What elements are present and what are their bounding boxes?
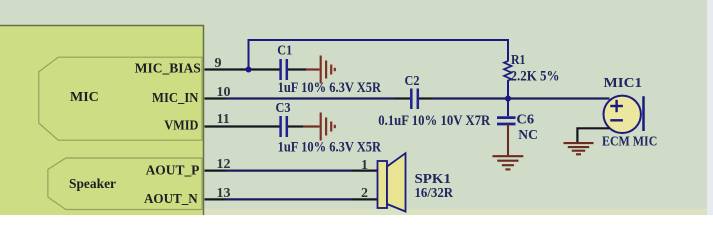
- svg-text:R1: R1: [511, 53, 526, 68]
- ground at MIC1: [564, 143, 594, 154]
- svg-text:2: 2: [361, 186, 368, 201]
- svg-text:NC: NC: [518, 128, 538, 143]
- wire C1 right stub: [288, 68, 306, 70]
- wire MIC1 to ground: [577, 128, 609, 142]
- capacitor C2: [411, 89, 418, 110]
- svg-text:2.2K 5%: 2.2K 5%: [511, 68, 560, 84]
- directive stub (red) row1: [306, 68, 320, 70]
- directive bars row1: [321, 56, 335, 84]
- wire pin10 MIC_IN row: [205, 97, 227, 99]
- ground below C6: [493, 156, 524, 169]
- svg-text:SPK1: SPK1: [415, 172, 452, 187]
- sheet-symbol yellow block (audio connector region): [0, 26, 204, 226]
- wire C3 right stub: [288, 125, 303, 127]
- svg-text:C3: C3: [276, 101, 291, 116]
- svg-text:Speaker: Speaker: [69, 177, 116, 192]
- speaker SPK1: [378, 153, 406, 211]
- wire pin12 AOUT_P row: [205, 170, 227, 172]
- svg-text:1uF 10% 6.3V X5R: 1uF 10% 6.3V X5R: [278, 139, 382, 155]
- svg-text:MIC1: MIC1: [604, 76, 643, 91]
- svg-text:1uF 10% 6.3V X5R: 1uF 10% 6.3V X5R: [278, 80, 382, 96]
- part U MIC body outline: [39, 57, 202, 140]
- part Speaker body outline: [48, 158, 202, 210]
- svg-text:ECM MIC: ECM MIC: [602, 135, 657, 150]
- svg-text:0.1uF 10% 10V X7R: 0.1uF 10% 10V X7R: [378, 113, 490, 129]
- svg-text:AOUT_N: AOUT_N: [144, 191, 198, 206]
- svg-text:16/32R: 16/32R: [415, 186, 454, 201]
- svg-text:MIC: MIC: [70, 90, 99, 105]
- wire junction to MIC1: [508, 97, 610, 99]
- bottom pale strip: [203, 209, 713, 216]
- directive stub (red) row3: [303, 125, 320, 127]
- svg-text:11: 11: [217, 112, 230, 127]
- node junction on MIC_BIAS: [246, 67, 252, 73]
- wire pin9 MIC_BIAS row: [205, 68, 280, 70]
- right pale window edge: [707, 0, 713, 215]
- capacitor C3: [281, 116, 287, 137]
- svg-text:VMID: VMID: [164, 117, 198, 132]
- capacitor C6: [497, 99, 516, 125]
- svg-text:MIC_IN: MIC_IN: [152, 90, 199, 105]
- microphone MIC1: [604, 96, 644, 133]
- wire C6 to ground (red): [507, 124, 509, 155]
- svg-text:C6: C6: [516, 113, 534, 128]
- wire top loop: [249, 40, 509, 70]
- svg-text:AOUT_P: AOUT_P: [146, 162, 200, 177]
- svg-text:MIC_BIAS: MIC_BIAS: [135, 60, 201, 75]
- wire C2 left stub: [394, 97, 410, 99]
- node junction MIC_IN/R1/C6: [505, 96, 511, 102]
- wire pin11 VMID row: [205, 125, 280, 127]
- wire pin13 AOUT_N row: [205, 198, 227, 200]
- svg-text:C1: C1: [277, 44, 292, 59]
- wire C2 to junction: [419, 97, 433, 99]
- capacitor C1: [281, 59, 287, 80]
- resistor R1: [504, 60, 512, 99]
- svg-text:1: 1: [361, 158, 368, 173]
- svg-text:C2: C2: [405, 74, 420, 89]
- directive bars row3: [321, 113, 335, 141]
